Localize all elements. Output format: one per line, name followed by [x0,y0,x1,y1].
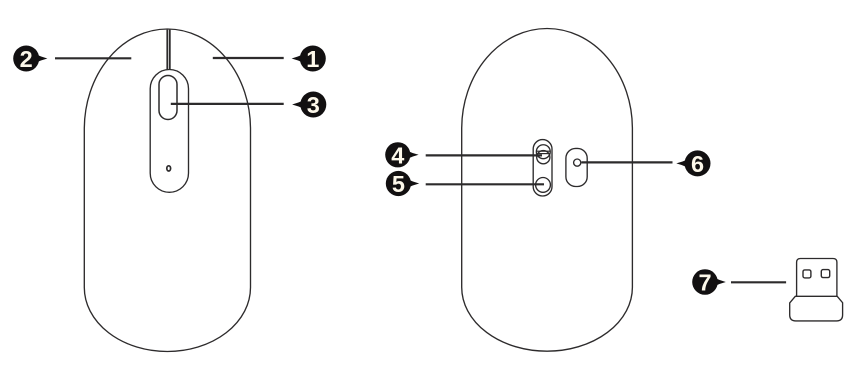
mouse bottom view body [462,28,633,351]
callout 7 bubble [692,269,718,295]
usb contact left [803,270,811,278]
svg-text:1: 1 [306,46,319,72]
sensor window [566,148,587,186]
usb contact right [821,270,829,278]
svg-text:5: 5 [392,171,405,197]
callout 3 bubble [300,92,326,118]
switch groove line upper [537,150,551,152]
leader line 7 [731,281,786,283]
svg-text:7: 7 [698,270,711,296]
scroll wheel housing [150,70,188,193]
leader line 1 [213,57,284,59]
scroll wheel [159,76,177,120]
svg-text:4: 4 [391,142,404,168]
svg-text:2: 2 [20,46,33,72]
leader line 4 [426,154,542,156]
switch groove line lower [537,153,551,155]
mouse top view body [84,29,250,352]
svg-text:3: 3 [307,92,320,118]
sensor lens hole [574,159,581,166]
button seam left line [166,30,168,70]
leader line 3 [171,103,284,105]
leader line 6 [582,161,673,163]
callout 1 bubble [300,46,326,72]
svg-text:6: 6 [691,151,704,177]
power switch knob circle [537,151,550,164]
callout 5 bubble [386,171,411,196]
LED indicator [167,166,171,171]
power switch upper circle [536,145,550,159]
button seam right line [169,30,171,70]
usb receiver body [790,296,843,321]
callout 6 bubble [685,150,711,176]
leader line 5 [426,183,544,185]
callout 4 bubble [385,142,410,167]
callout 2 bubble [13,46,39,72]
leader line 2 [55,57,131,59]
pairing button circle [536,178,551,193]
power switch recess capsule [533,140,552,196]
usb receiver plug [797,259,837,297]
